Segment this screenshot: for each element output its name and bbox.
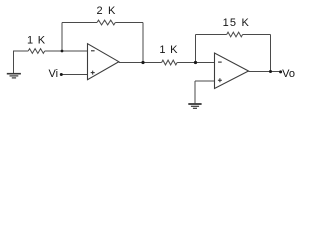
op-amp U1 minus marker	[91, 50, 95, 52]
resistor R2 2 K (feedback stage 1)	[97, 20, 115, 25]
node D junction dot	[269, 70, 272, 73]
terminal dot Vi	[60, 73, 63, 76]
op-amp U1	[88, 44, 119, 80]
svg-text:2 K: 2 K	[96, 5, 116, 17]
node B junction dot	[141, 61, 144, 64]
wire U1 output to R3	[119, 62, 162, 64]
ground GND1	[7, 74, 21, 78]
node C junction dot	[194, 61, 197, 64]
wire node A feedback riser	[61, 23, 63, 52]
resistor R3 1 K (interstage)	[162, 60, 178, 65]
wire U2 noninverting input	[195, 80, 215, 82]
ground GND2	[188, 104, 201, 108]
svg-text:Vo: Vo	[282, 68, 295, 80]
node A junction dot	[61, 50, 64, 53]
svg-text:15 K: 15 K	[223, 17, 250, 29]
wire Vi terminal to U1 noninverting input	[63, 74, 88, 76]
wire U2 plus to ground stem	[194, 81, 196, 103]
wire feedback drop to U1 output	[142, 23, 144, 63]
wire top feedback 2 right segment	[243, 34, 271, 36]
wire top feedback right segment	[115, 22, 143, 24]
terminal dot Vo	[279, 70, 282, 73]
op-amp U2	[215, 53, 249, 89]
svg-text:Vi: Vi	[49, 68, 59, 80]
svg-text:1 K: 1 K	[27, 34, 46, 46]
wire R1 to U1 inverting input	[45, 50, 88, 52]
wire node C feedback riser	[195, 35, 197, 63]
resistor R1 1 K (input)	[28, 49, 45, 54]
resistor R4 15 K (feedback stage 2)	[227, 32, 243, 37]
wire feedback drop to U2 output	[270, 35, 272, 72]
wire top feedback left segment	[62, 22, 97, 24]
wire R3 to U2 inverting input	[177, 62, 214, 64]
wire U2 output to Vo terminal	[249, 71, 281, 73]
wire top feedback 2 left segment	[196, 34, 227, 36]
svg-text:1 K: 1 K	[159, 44, 178, 56]
op-amp U2 minus marker	[218, 61, 222, 63]
op-amp U1 plus marker	[91, 71, 95, 75]
wire ground stem to R1	[14, 51, 29, 73]
op-amp U2 plus marker	[218, 78, 222, 82]
